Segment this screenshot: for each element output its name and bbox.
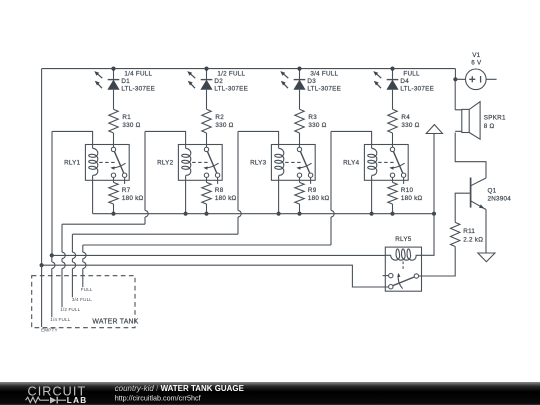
junction R7 on lower bus	[111, 212, 115, 216]
wire 1/2 FULL probe into tank (hops)	[62, 224, 65, 307]
resistor R11 2.2 kohm	[451, 222, 484, 246]
svg-text:R10: R10	[401, 187, 414, 194]
svg-text:EMPTY: EMPTY	[41, 327, 58, 332]
wire relay RLY1 throw pin to resistor R7	[113, 178, 115, 183]
wire D3 anode column from bus to LED	[299, 69, 301, 80]
resistor R8 180 kohm	[202, 182, 237, 204]
svg-text:RLY5: RLY5	[395, 236, 412, 243]
wire top bus corner down to V1	[454, 69, 456, 80]
wire resistor R9 to lower bus	[299, 204, 301, 214]
wire relay RLY3 coil top up-left to column	[238, 131, 279, 144]
wire RLY4 coil feed down (hops bus) to row	[83, 131, 334, 245]
transistor Q1 2N3904 (NPN)	[471, 178, 486, 210]
wire R11 top to Q1 base	[455, 193, 470, 222]
voltage source V1 6V	[455, 69, 496, 90]
wire EMPTY probe into tank	[41, 265, 43, 327]
junction on top bus at D4 column	[390, 67, 394, 71]
wire relay RLY1 coil top up-left to column	[52, 131, 93, 144]
svg-text:6 V: 6 V	[471, 60, 482, 67]
relay RLY1	[85, 145, 129, 184]
svg-text:180 kΩ: 180 kΩ	[308, 195, 330, 202]
wire RLY3 coil feed down (hops bus) to row	[72, 131, 241, 234]
wire relay RLY2 throw pin to resistor R8	[206, 178, 208, 183]
svg-text:R9: R9	[308, 187, 317, 194]
resistor R2 330 ohm	[202, 109, 234, 133]
junction on top bus at D3 column	[297, 67, 301, 71]
wire relay RLY2 coil top up-left to column	[145, 131, 186, 144]
wire FULL probe into tank (hops)	[83, 245, 86, 287]
resistor R3 330 ohm	[295, 109, 327, 133]
svg-text:180 kΩ: 180 kΩ	[122, 195, 144, 202]
resistor R9 180 kohm	[295, 182, 330, 204]
LED D1 LTL-307EE	[94, 71, 119, 90]
svg-text:2.2 kΩ: 2.2 kΩ	[463, 236, 483, 243]
wire resistor R3 to relay RLY3 switch pin	[299, 133, 301, 147]
wire LED cathode to resistor R2	[206, 90, 208, 109]
wire Q1 emitter to ground	[485, 210, 487, 253]
svg-text:3/4 FULL: 3/4 FULL	[72, 297, 92, 302]
wire relay RLY2 coil bottom to lower bus	[185, 180, 187, 213]
LED D3 LTL-307EE	[280, 71, 305, 90]
relay RLY2	[178, 145, 222, 184]
junction on top bus at D1 column	[111, 67, 115, 71]
footer title: country-kid / WATER TANK GUAGE	[115, 384, 244, 403]
resistor R4 330 ohm	[388, 109, 420, 133]
svg-text:1/4 FULL: 1/4 FULL	[124, 71, 152, 78]
svg-text:1/2 FULL: 1/2 FULL	[217, 71, 245, 78]
junction EMPTY node on RLY5 switch line	[40, 263, 44, 267]
wire relay RLY4 coil top up-left to column	[331, 131, 372, 144]
wire lower bus (relay commons) to RLY5 coil column	[93, 213, 434, 215]
junction lower bus at RLY5 coil column	[432, 212, 436, 216]
wire node flag column up	[433, 134, 435, 214]
resistor R1 330 ohm	[109, 109, 141, 133]
label probe levels EMPTY / 1-4 / 1-2 / 3-4 / FULL	[41, 287, 93, 333]
wire relay RLY3 throw pin to resistor R9	[299, 178, 301, 183]
wire LED cathode to resistor R1	[113, 90, 115, 109]
svg-text:FULL: FULL	[403, 71, 420, 78]
label 1/4 FULL / D1 / LTL-307EE	[121, 71, 155, 93]
junction coil bottom RLY4 on lower bus	[370, 212, 374, 216]
svg-text:RLY4: RLY4	[343, 160, 360, 167]
svg-text:V1: V1	[472, 52, 480, 59]
svg-text:R4: R4	[401, 114, 410, 121]
label RLY2	[157, 160, 174, 167]
svg-text:R7: R7	[122, 187, 131, 194]
svg-text:D2: D2	[214, 78, 223, 85]
wire left rail from top bus down to EMPTY probe	[41, 69, 43, 266]
wire relay RLY1 coil bottom to lower bus	[92, 180, 94, 213]
label SPKR1 8 ohm	[484, 115, 506, 130]
wire resistor R8 to lower bus	[206, 204, 208, 214]
wire resistor R2 to relay RLY2 switch pin	[206, 133, 208, 147]
wire LED cathode to resistor R3	[299, 90, 301, 109]
label V1 6 V	[471, 52, 482, 67]
wire Q1 collector up to speaker	[455, 133, 486, 179]
label Q1 2N3904	[488, 187, 512, 202]
wire resistor R1 to relay RLY1 switch pin	[113, 133, 115, 147]
svg-text:3/4 FULL: 3/4 FULL	[310, 71, 338, 78]
wire D1 anode column from bus to LED	[113, 69, 115, 80]
wire 1/4 FULL node to RLY5 coil (line C)	[52, 254, 386, 256]
wire relay RLY3 coil bottom to lower bus	[278, 180, 280, 213]
svg-text:1/4 FULL: 1/4 FULL	[50, 317, 70, 322]
svg-text:2N3904: 2N3904	[488, 195, 512, 202]
svg-text:Q1: Q1	[488, 187, 497, 194]
junction R9 on lower bus	[297, 212, 301, 216]
wire RLY5 switch to R11 bottom	[419, 247, 455, 277]
relay RLY5	[383, 247, 422, 291]
node flag (up arrow)	[426, 125, 442, 134]
svg-text:http://circuitlab.com/crr5hcf: http://circuitlab.com/crr5hcf	[115, 393, 201, 402]
label RLY4	[343, 160, 360, 167]
svg-text:LTL-307EE: LTL-307EE	[214, 86, 248, 93]
ground	[478, 253, 495, 262]
label 3/4 FULL / D3 / LTL-307EE	[307, 71, 341, 93]
svg-text:RLY1: RLY1	[64, 160, 81, 167]
LED D4 LTL-307EE	[373, 71, 398, 90]
svg-text:D4: D4	[400, 78, 409, 85]
LED D2 LTL-307EE	[187, 71, 212, 90]
svg-text:R2: R2	[215, 114, 224, 121]
svg-text:180 kΩ: 180 kΩ	[401, 195, 423, 202]
wire relay RLY4 coil bottom to lower bus	[371, 180, 373, 213]
svg-text:1/2 FULL: 1/2 FULL	[60, 307, 80, 312]
svg-text:RLY2: RLY2	[157, 160, 174, 167]
svg-text:8 Ω: 8 Ω	[484, 123, 495, 130]
label RLY1	[64, 160, 81, 167]
svg-text:D3: D3	[307, 78, 316, 85]
label RLY3	[250, 160, 267, 167]
junction V1 left lead	[453, 77, 457, 81]
wire top supply bus	[42, 68, 456, 70]
junction coil bottom RLY2 on lower bus	[184, 212, 188, 216]
water tank (dashed)	[32, 276, 139, 328]
svg-text:LTL-307EE: LTL-307EE	[121, 86, 155, 93]
relay RLY3	[271, 145, 315, 184]
wire resistor R7 to lower bus	[113, 204, 115, 214]
svg-text:FULL: FULL	[81, 287, 93, 292]
speaker SPKR1 8 ohm	[455, 102, 480, 140]
junction 1/4 FULL node on RLY5 coil line	[50, 253, 54, 257]
wire resistor R10 to lower bus	[392, 204, 394, 214]
wire 1/4 FULL probe into tank (hops)	[52, 255, 55, 317]
svg-text:RLY3: RLY3	[250, 160, 267, 167]
resistor R10 180 kohm	[388, 182, 423, 204]
svg-text:LTL-307EE: LTL-307EE	[400, 86, 434, 93]
label FULL / D4 / LTL-307EE	[400, 71, 434, 93]
wire 3/4 FULL probe into tank (hops)	[72, 234, 75, 297]
svg-text:country-kid / WATER TANK GUAGE: country-kid / WATER TANK GUAGE	[115, 384, 244, 393]
junction R8 on lower bus	[204, 212, 208, 216]
svg-text:R11: R11	[463, 228, 475, 235]
wire EMPTY node to RLY5 switch pin (line D)	[42, 265, 389, 287]
wire RLY2 coil feed down (hops bus) to row	[62, 131, 148, 224]
svg-text:R8: R8	[215, 187, 224, 194]
wire LED cathode to resistor R4	[392, 90, 394, 109]
wire relay RLY4 throw pin to resistor R10	[392, 178, 394, 183]
svg-text:R3: R3	[308, 114, 317, 121]
svg-text:330 Ω: 330 Ω	[401, 122, 419, 129]
wire RLY5 coil to node flag column	[422, 214, 435, 256]
wire RLY1 coil feed down to 1/4 FULL probe node	[51, 131, 53, 255]
svg-text:LTL-307EE: LTL-307EE	[307, 86, 341, 93]
svg-text:D1: D1	[121, 78, 130, 85]
svg-text:SPKR1: SPKR1	[484, 115, 506, 122]
wire D2 anode column from bus to LED	[206, 69, 208, 80]
svg-text:180 kΩ: 180 kΩ	[215, 195, 237, 202]
svg-text:LAB: LAB	[67, 396, 88, 405]
junction on top bus at D2 column	[204, 67, 208, 71]
wire V1 to speaker top	[454, 79, 456, 110]
label RLY5	[395, 236, 412, 243]
svg-text:WATER TANK: WATER TANK	[92, 318, 138, 325]
resistor R7 180 kohm	[109, 182, 144, 204]
wire D4 anode column from bus to LED	[392, 69, 394, 80]
svg-text:330 Ω: 330 Ω	[308, 122, 326, 129]
svg-text:330 Ω: 330 Ω	[122, 122, 140, 129]
junction coil bottom RLY3 on lower bus	[277, 212, 281, 216]
svg-text:330 Ω: 330 Ω	[215, 122, 233, 129]
relay RLY4	[364, 145, 408, 184]
CircuitLab logo	[26, 385, 88, 405]
svg-text:R1: R1	[122, 114, 131, 121]
label 1/2 FULL / D2 / LTL-307EE	[214, 71, 248, 93]
wire resistor R4 to relay RLY4 switch pin	[392, 133, 394, 147]
junction R10 on lower bus	[390, 212, 394, 216]
